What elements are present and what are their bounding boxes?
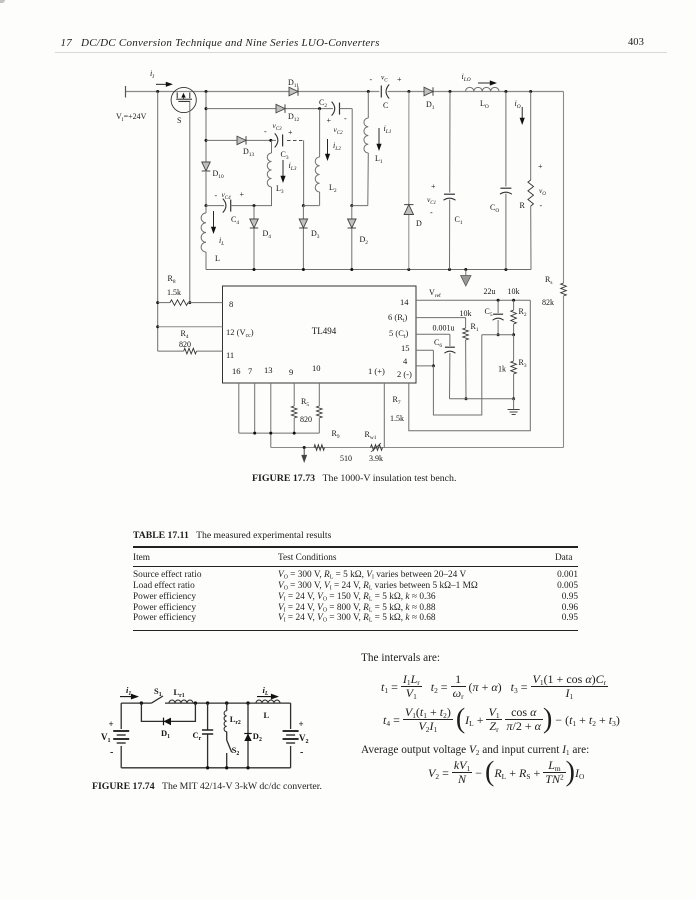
resistor R8 1.5k on pin8 line xyxy=(156,301,159,304)
capacitor C2 xyxy=(333,107,341,110)
wire: top rail xyxy=(126,91,564,93)
capacitor C_r xyxy=(207,703,209,730)
node: C3/L3 junction xyxy=(269,139,272,142)
diode D2 xyxy=(351,206,353,270)
svg-text:Rw1: Rw1 xyxy=(365,430,377,441)
svg-text:iL3: iL3 xyxy=(289,161,297,172)
transistor S (power switch) xyxy=(171,87,196,112)
svg-text:iL1: iL1 xyxy=(384,124,392,135)
resistor R_s 82k xyxy=(561,283,567,296)
svg-text:LO: LO xyxy=(480,99,489,110)
wire: left vertical from rail (x157.7) xyxy=(157,92,159,352)
node: C2/L2 junction xyxy=(318,107,321,110)
svg-text:C3: C3 xyxy=(281,150,289,161)
svg-text:14: 14 xyxy=(400,297,409,307)
svg-text:10k: 10k xyxy=(508,287,520,296)
switch S1 xyxy=(152,696,164,703)
wire: node line y334.8 xyxy=(482,334,514,336)
svg-text:R: R xyxy=(520,201,526,210)
svg-text:510: 510 xyxy=(340,454,352,463)
svg-text:R7: R7 xyxy=(393,395,401,406)
capacitor C on top rail xyxy=(379,90,387,93)
svg-text:82k: 82k xyxy=(542,298,554,307)
svg-text:vO: vO xyxy=(539,186,546,197)
svg-text:V1: V1 xyxy=(101,732,111,744)
svg-text:D1: D1 xyxy=(161,728,170,740)
svg-text:-: - xyxy=(344,114,347,123)
svg-text:12 (Vcc): 12 (Vcc) xyxy=(226,327,254,339)
node: C_O branch on rail xyxy=(504,90,507,93)
wire: bottom node line y398.8 xyxy=(450,398,515,400)
svg-text:L1: L1 xyxy=(375,154,383,165)
svg-text:R4: R4 xyxy=(181,329,189,340)
wire: pin4 line and Z-link xyxy=(416,365,433,367)
capacitor C4 xyxy=(224,204,232,207)
svg-text:1.5k: 1.5k xyxy=(390,414,404,423)
svg-text:0.001u: 0.001u xyxy=(433,324,455,333)
ground arrow on line B xyxy=(303,446,306,449)
input terminal V_I xyxy=(125,86,127,98)
svg-text:i1: i1 xyxy=(126,685,131,697)
svg-text:Rs: Rs xyxy=(545,275,552,286)
capacitor C1 xyxy=(449,92,452,270)
svg-text:13: 13 xyxy=(264,365,273,375)
wire: segment2 y205.6 (L2 bottom) xyxy=(302,204,305,207)
resistor R3 1k xyxy=(513,335,515,361)
diode D12 xyxy=(276,104,285,113)
svg-text:R2: R2 xyxy=(519,307,527,318)
wire: pin1 drop xyxy=(383,383,385,448)
wire: x206 vertical to C4 line xyxy=(205,172,207,206)
wire: pin13 drop xyxy=(270,383,272,448)
svg-text:C: C xyxy=(383,101,388,110)
svg-text:vC: vC xyxy=(381,73,388,84)
svg-text:5 (Ct): 5 (Ct) xyxy=(389,328,409,340)
node: C1 branch on rail xyxy=(449,90,452,93)
inductor L_r1 xyxy=(169,700,193,703)
svg-text:-: - xyxy=(370,75,373,84)
wire: C4 line y205.6 xyxy=(205,204,208,207)
wire: line B y447.5 xyxy=(271,447,564,449)
svg-text:S1: S1 xyxy=(154,686,162,698)
resistor R4 820 on pin11 line xyxy=(158,350,184,352)
svg-text:D1: D1 xyxy=(426,100,435,111)
svg-text:iI: iI xyxy=(150,69,154,80)
node: D2 top junction xyxy=(246,701,249,704)
svg-text:+: + xyxy=(288,128,293,137)
node: D4 junction xyxy=(253,204,256,207)
resistor R5a on pin9 drop xyxy=(293,383,295,406)
node: L1 branch on rail xyxy=(367,90,370,93)
svg-text:D4: D4 xyxy=(263,229,272,240)
svg-text:D2: D2 xyxy=(253,731,262,743)
node: D branch on rail xyxy=(407,90,410,93)
node: rail-left junction xyxy=(156,90,159,93)
svg-text:D13: D13 xyxy=(243,147,254,158)
svg-text:-: - xyxy=(300,747,303,758)
capacitor C3 xyxy=(276,139,284,142)
inductor L (fig74) xyxy=(256,700,280,703)
resistor R5b on pin10 drop xyxy=(318,383,320,406)
svg-text:4: 4 xyxy=(403,356,408,366)
svg-text:1 (+): 1 (+) xyxy=(368,366,385,376)
potentiometer R_w1 3.9k xyxy=(371,445,383,451)
svg-text:S2: S2 xyxy=(232,745,240,757)
svg-text:820: 820 xyxy=(179,340,191,349)
svg-text:Lr2: Lr2 xyxy=(230,714,241,726)
node: Lr2 top junction xyxy=(225,701,228,704)
wire: C2 right vertical x352.2 xyxy=(351,109,353,206)
svg-text:iLO: iLO xyxy=(462,72,471,83)
current i_L1 arrow xyxy=(378,128,380,147)
svg-text:+: + xyxy=(327,116,332,125)
svg-text:820: 820 xyxy=(300,415,312,424)
header xyxy=(61,37,380,49)
svg-text:D2: D2 xyxy=(360,235,369,246)
svg-text:L2: L2 xyxy=(329,183,337,194)
wire: fig74 bottom rail xyxy=(121,767,290,769)
svg-text:-: - xyxy=(430,208,433,217)
svg-text:L: L xyxy=(215,254,220,263)
current i_L arrow xyxy=(213,211,215,230)
diode D3 xyxy=(302,206,304,270)
op-amp U1 TL494 box xyxy=(223,286,417,383)
svg-text:+: + xyxy=(299,719,304,729)
svg-text:CO: CO xyxy=(490,203,499,214)
svg-text:D: D xyxy=(416,219,422,228)
node: rail junction x206 xyxy=(205,90,208,93)
inductor L3 xyxy=(271,140,273,153)
wire: C3 right vertical x303.6 xyxy=(303,140,305,205)
resistor R1 10k on pin6 xyxy=(416,317,466,319)
node: Cr top junction xyxy=(206,701,209,704)
wire: right border xyxy=(563,92,565,284)
svg-text:TL494: TL494 xyxy=(312,326,337,336)
svg-text:-: - xyxy=(215,191,218,200)
wire: pin12 line xyxy=(156,325,159,328)
diode D2 xyxy=(247,703,249,768)
wire: second rail y108.6 xyxy=(205,107,208,110)
svg-text:C5: C5 xyxy=(485,307,493,318)
svg-text:L3: L3 xyxy=(276,184,284,195)
current i_L2 arrow xyxy=(327,139,329,157)
svg-text:iL2: iL2 xyxy=(333,141,341,152)
svg-text:iL: iL xyxy=(263,685,269,697)
svg-text:V2: V2 xyxy=(299,733,309,745)
svg-text:R9: R9 xyxy=(332,429,340,440)
svg-text:iO: iO xyxy=(515,99,521,110)
ground arrow below bottom rail xyxy=(465,270,467,277)
table 17.11 xyxy=(133,530,331,541)
resistor R (load) xyxy=(530,92,532,181)
svg-text:D12: D12 xyxy=(288,112,299,123)
svg-text:8: 8 xyxy=(229,299,233,309)
svg-text:S: S xyxy=(177,116,181,125)
inductor L_r2 xyxy=(226,703,228,711)
caption figure 17.73 xyxy=(252,473,456,484)
svg-text:3.9k: 3.9k xyxy=(369,454,383,463)
wire: bottom rail xyxy=(206,269,531,271)
diode D13 xyxy=(237,136,246,145)
wire: pin16 drop xyxy=(238,383,240,433)
svg-text:iL: iL xyxy=(219,236,224,247)
svg-text:D10: D10 xyxy=(213,169,224,180)
svg-text:+: + xyxy=(397,75,402,84)
inductor L1 xyxy=(367,92,369,119)
inductor L_O xyxy=(466,87,500,91)
diode D4 xyxy=(253,206,255,270)
resistor R2 10k xyxy=(513,300,515,310)
scan corner artifact xyxy=(0,0,5,3)
svg-text:22u: 22u xyxy=(484,287,496,296)
svg-text:VI=+24V: VI=+24V xyxy=(116,112,147,123)
wire: MOSFET drain vertical (x189.8) xyxy=(189,101,191,302)
svg-text:15: 15 xyxy=(401,343,410,353)
capacitor C_O xyxy=(505,92,507,270)
svg-text:11: 11 xyxy=(226,350,234,360)
svg-text:D3: D3 xyxy=(311,229,320,240)
wire: pin7 drop xyxy=(254,383,256,433)
node: Lr1 right junction xyxy=(194,701,197,704)
svg-text:+: + xyxy=(538,162,543,171)
diode D (output) xyxy=(408,92,410,270)
svg-text:10k: 10k xyxy=(460,309,472,318)
svg-text:1.5k: 1.5k xyxy=(167,288,181,297)
wire: pin2 loop to Vref xyxy=(409,300,531,430)
wire: third rail y140.4 xyxy=(205,139,208,142)
current i_L3 arrow xyxy=(282,160,284,179)
svg-text:C4: C4 xyxy=(231,215,239,226)
resistor R9 510 xyxy=(314,445,325,451)
diode D11 xyxy=(289,87,298,96)
svg-text:1k: 1k xyxy=(498,365,506,374)
ground symbol xyxy=(513,399,515,410)
wire: pin14 Vref line xyxy=(416,299,530,301)
wire: segment3 y205.6 (L1 bottom) xyxy=(350,204,353,207)
switch S2 xyxy=(226,732,228,740)
svg-text:vC3: vC3 xyxy=(273,121,283,132)
svg-text:9: 9 xyxy=(289,367,293,377)
svg-text:10: 10 xyxy=(312,363,321,373)
wire: fig74 top rail xyxy=(121,702,151,704)
svg-text:L: L xyxy=(264,710,270,720)
svg-text:+: + xyxy=(431,182,436,191)
inductor L2 xyxy=(319,109,321,157)
svg-text:2 (-): 2 (-) xyxy=(397,369,412,379)
svg-text:-: - xyxy=(110,747,113,758)
svg-text:R5: R5 xyxy=(301,397,309,408)
caption figure 17.74 xyxy=(92,781,322,792)
svg-text:16: 16 xyxy=(232,366,241,376)
battery V2 xyxy=(290,703,292,729)
svg-text:Cr: Cr xyxy=(193,730,202,742)
svg-text:vC1: vC1 xyxy=(427,195,436,206)
wire: tie line y433.1 xyxy=(239,432,319,434)
diode D1 xyxy=(424,87,433,96)
svg-text:C6: C6 xyxy=(434,338,442,349)
diode D10 xyxy=(202,162,211,171)
wire: vertical x206 top xyxy=(205,92,207,163)
equations xyxy=(361,652,440,664)
svg-text:6 (Rt): 6 (Rt) xyxy=(388,312,408,324)
svg-text:C1: C1 xyxy=(455,215,463,226)
inductor L (input) xyxy=(205,206,207,213)
svg-text:Lr1: Lr1 xyxy=(174,687,185,699)
svg-text:vC2: vC2 xyxy=(334,125,344,136)
svg-text:7: 7 xyxy=(248,366,252,376)
node: R branch on rail xyxy=(529,90,532,93)
svg-text:R1: R1 xyxy=(471,322,479,333)
diode D1 loop xyxy=(141,703,195,721)
svg-text:R8: R8 xyxy=(168,274,176,285)
capacitor C6 0.001u on pin5 xyxy=(416,333,450,335)
capacitor C5 22u xyxy=(497,300,499,313)
node: S1 junction xyxy=(140,701,143,704)
svg-text:R3: R3 xyxy=(519,358,527,369)
wire: dashed link C3 to x303.6 xyxy=(287,139,304,141)
svg-text:-: - xyxy=(540,201,543,210)
wire: pin15 to pin4 tie xyxy=(416,349,433,351)
battery V1 xyxy=(120,703,122,729)
svg-text:-: - xyxy=(264,127,267,136)
svg-text:Vref: Vref xyxy=(429,288,441,299)
svg-text:+: + xyxy=(240,190,245,199)
svg-text:+: + xyxy=(109,719,114,729)
